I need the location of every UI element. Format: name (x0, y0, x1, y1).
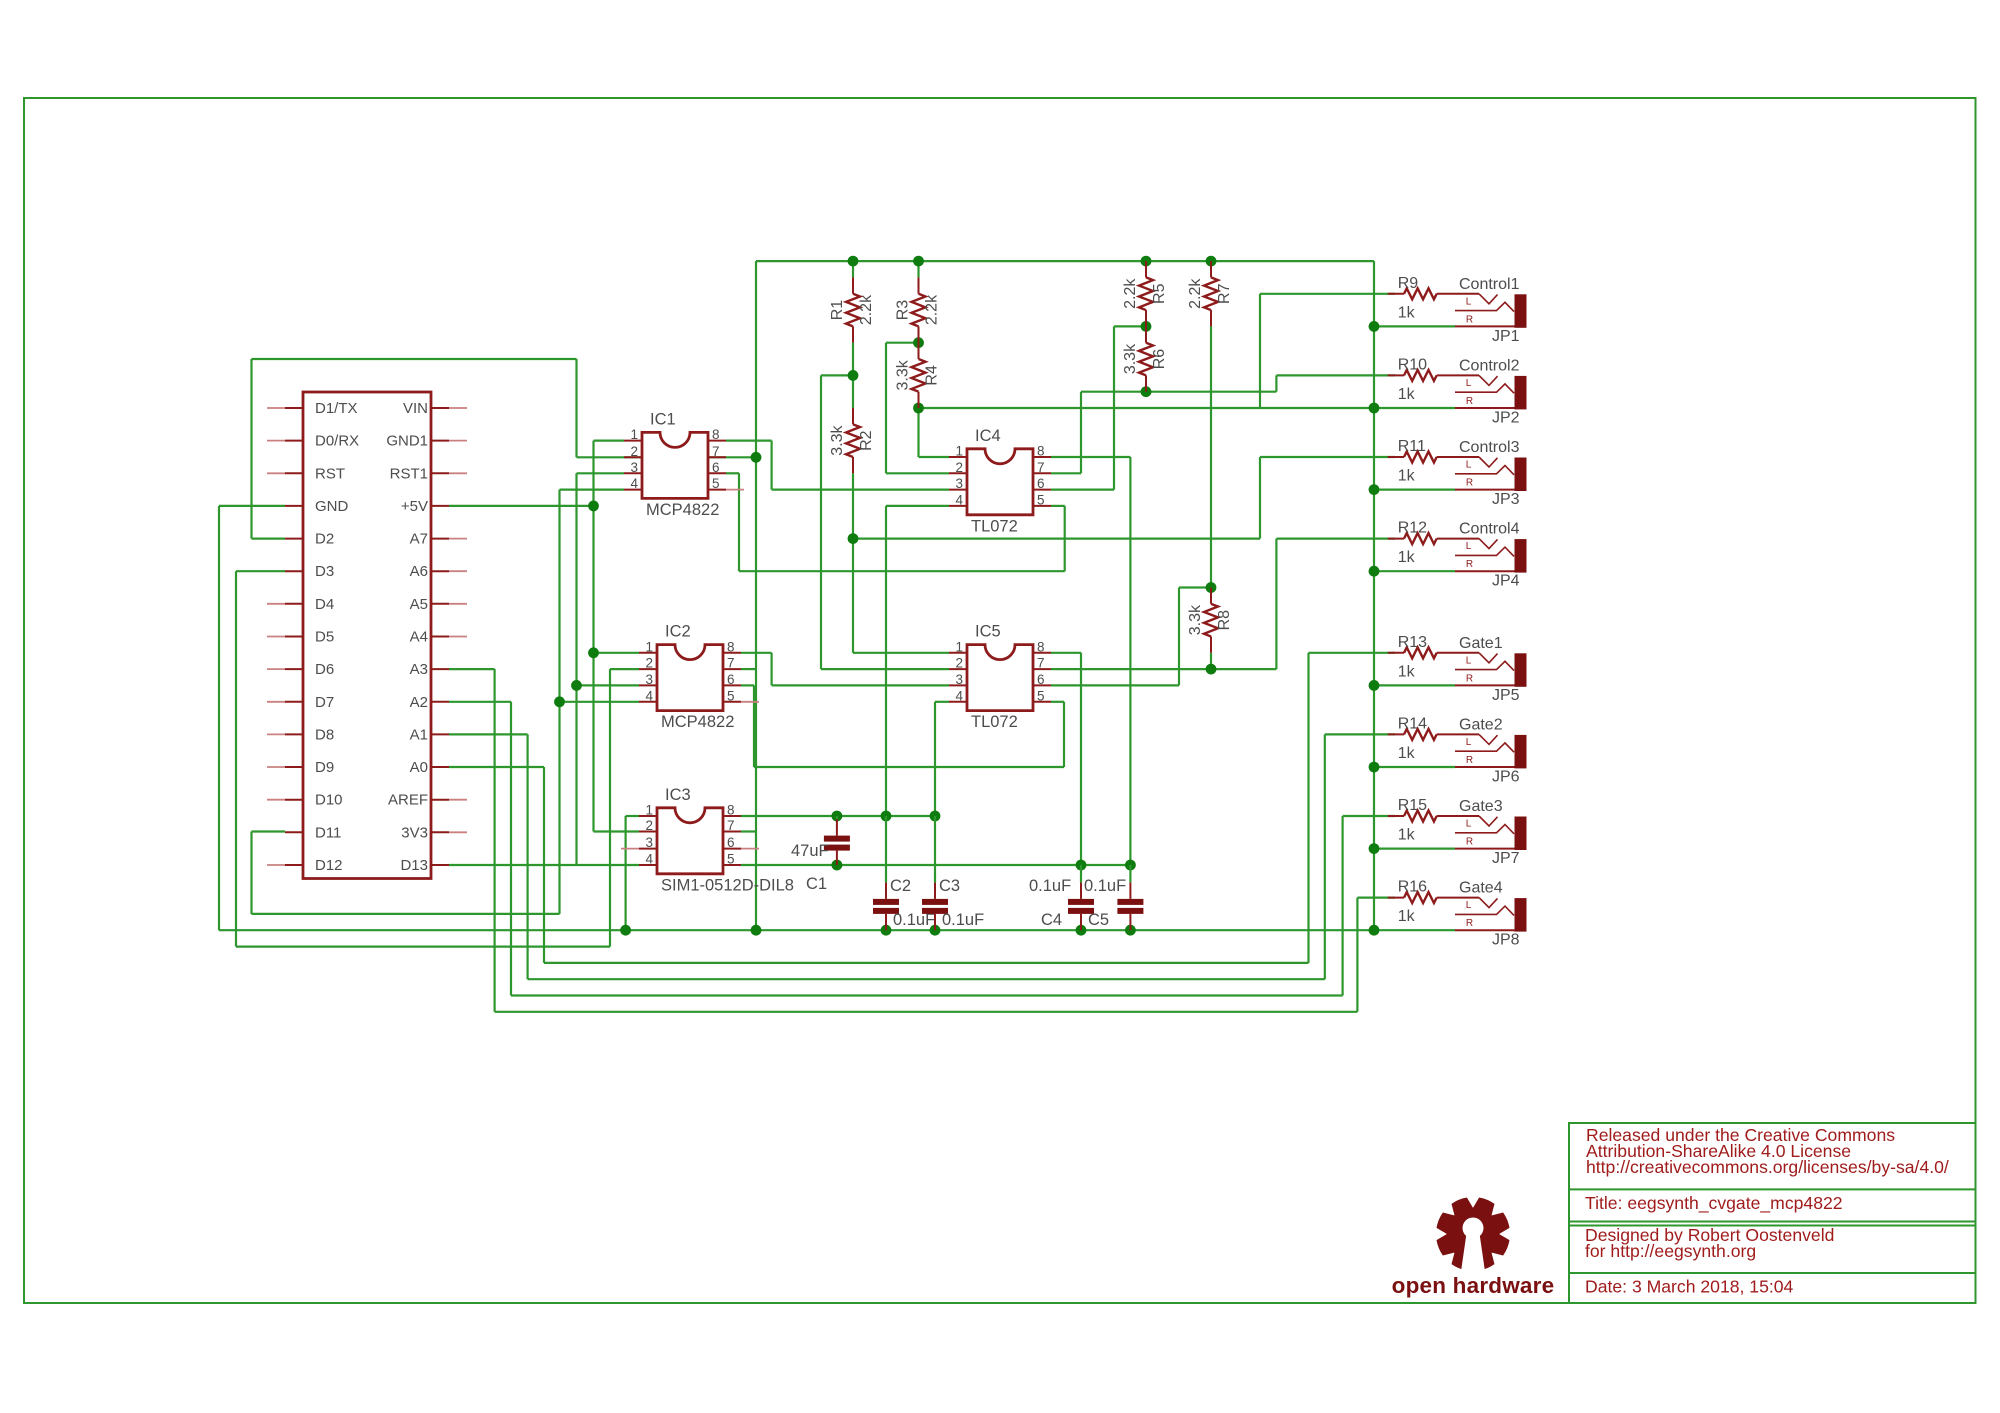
junction JP7 sleeve (1369, 843, 1380, 854)
IC U=IC1 MCP4822 DAC (624, 410, 744, 519)
junction JP1 sleeve (1369, 321, 1380, 332)
wire IC2 VOUTA to IC5 pin3 (772, 684, 949, 686)
svg-text:R8: R8 (1216, 610, 1233, 631)
wire CS2 up (609, 669, 611, 947)
svg-text:D6: D6 (315, 661, 334, 678)
svg-text:A2: A2 (410, 694, 428, 711)
svg-text:0.1uF: 0.1uF (1084, 877, 1126, 895)
junction R1 R2 (848, 370, 859, 381)
junction C3 GND (930, 925, 941, 936)
wire IC4 pin4 out (886, 505, 949, 507)
svg-text:C4: C4 (1041, 911, 1062, 929)
wire A3 up to R16 (1356, 898, 1358, 1012)
junction JP6 sleeve (1369, 762, 1380, 773)
svg-text:D12: D12 (315, 857, 343, 874)
wire D11 vertical (250, 832, 252, 914)
svg-text:JP2: JP2 (1492, 409, 1520, 426)
wire GND left vertical (218, 506, 220, 930)
wire GND jack column (1373, 261, 1375, 930)
svg-text:Control4: Control4 (1459, 521, 1520, 538)
wire R3R4 junction column (885, 343, 887, 474)
junction IC5 pin4 rail (930, 811, 941, 822)
wire A2 bottom run (511, 994, 1343, 996)
wire A3 vertical (494, 669, 496, 1012)
svg-text:D3: D3 (315, 563, 334, 580)
svg-text:A4: A4 (410, 629, 428, 646)
wire IC5 pin8 to positive rail (1080, 653, 1082, 865)
resistor R4 3.3k (895, 343, 941, 408)
svg-text:0.1uF: 0.1uF (942, 911, 984, 929)
wire JP2 sleeve to GND (1374, 407, 1455, 409)
resistor R13 1k (1388, 634, 1479, 681)
wire A1 bottom run (528, 978, 1325, 980)
svg-text:A6: A6 (410, 563, 428, 580)
wire R7 to R8 (1210, 326, 1212, 587)
svg-text:C2: C2 (890, 877, 911, 895)
svg-text:0.1uF: 0.1uF (1029, 877, 1071, 895)
wire R8 bottom (1210, 653, 1212, 669)
wire IC1 pin6 VOUTB (726, 472, 739, 474)
wire VOUTA to IC4 pin3 (772, 489, 949, 491)
svg-text:R12: R12 (1398, 520, 1427, 537)
capacitor C2 0.1uF (873, 816, 935, 930)
svg-text:5: 5 (727, 688, 735, 703)
svg-text:7: 7 (727, 656, 735, 671)
jack connector JP4 1k (1455, 521, 1527, 590)
wire GND top rail (756, 260, 1374, 262)
wire to IC4 pin7 (1051, 472, 1081, 474)
svg-text:C3: C3 (939, 877, 960, 895)
wire +5V to IC3 pin2 (594, 830, 640, 832)
svg-text:6: 6 (712, 460, 720, 475)
svg-text:2: 2 (630, 444, 638, 459)
wire +5V column (592, 441, 594, 832)
svg-text:MCP4822: MCP4822 (661, 713, 734, 731)
junction GND bus jack column (1369, 925, 1380, 936)
wire IC2 VOUTB run (754, 766, 1064, 768)
svg-text:A3: A3 (410, 661, 428, 678)
svg-text:R: R (1466, 314, 1473, 325)
svg-text:2: 2 (645, 818, 653, 833)
svg-text:3: 3 (645, 672, 653, 687)
svg-text:1: 1 (955, 639, 963, 654)
junction IC1 pin7 GND (751, 452, 762, 463)
IC U=IC2 MCP4822 DAC (639, 623, 759, 732)
wire IC1 pin8 VOUTA (726, 440, 772, 442)
wire D2 to loop (252, 537, 286, 539)
jack connector JP2 1k (1455, 357, 1527, 426)
svg-text:Gate3: Gate3 (1459, 798, 1503, 815)
wire GND from Arduino GND pin (219, 505, 285, 507)
svg-text:R5: R5 (1151, 283, 1168, 304)
junction IC3 pin1 GND bus (620, 925, 631, 936)
wire D3 bottom run (236, 945, 610, 947)
svg-text:IC5: IC5 (975, 623, 1001, 641)
wire down to IC4 pin1 (917, 408, 919, 457)
wire IC3 pin5 positive rail (741, 864, 1130, 866)
svg-text:4: 4 (630, 476, 638, 491)
svg-text:D9: D9 (315, 759, 334, 776)
svg-text:R9: R9 (1398, 275, 1419, 292)
wire A3 bottom run (495, 1011, 1358, 1013)
junction C5 rail (1125, 860, 1136, 871)
wire JP6 sleeve to GND (1374, 766, 1455, 768)
jack connector JP1 1k (1455, 276, 1527, 345)
jack connector JP5 1k (1455, 635, 1527, 704)
resistor R12 1k (1388, 520, 1479, 567)
svg-text:L: L (1466, 819, 1472, 830)
wire up to R10 (1275, 375, 1277, 391)
junction JP5 sleeve (1369, 680, 1380, 691)
svg-text:7: 7 (1037, 656, 1045, 671)
junction GND rail R5 (1141, 256, 1152, 267)
wire IC3 pin1 out (626, 815, 639, 817)
svg-text:Control3: Control3 (1459, 439, 1520, 456)
wire IC1 pin7 VSS to GND (624, 456, 756, 458)
svg-text:R11: R11 (1398, 438, 1426, 455)
wire VOUTA down (770, 441, 772, 490)
svg-text:GND1: GND1 (386, 433, 428, 450)
svg-text:8: 8 (712, 427, 720, 442)
wire IC2 pin7 VSS to GND (741, 668, 756, 670)
svg-text:D13: D13 (400, 857, 428, 874)
wire R1 to R2 junction (852, 343, 854, 376)
wire A0 bottom run (544, 962, 1309, 964)
svg-text:R: R (1466, 755, 1473, 766)
svg-text:JP6: JP6 (1492, 768, 1520, 785)
wire IC5 pin8 out (1051, 652, 1081, 654)
svg-text:1k: 1k (1398, 663, 1416, 680)
wire SCK to IC2 pin3 (577, 684, 640, 686)
svg-text:Gate4: Gate4 (1459, 880, 1503, 897)
wire D3 out (236, 570, 285, 572)
wire SCK column (575, 473, 577, 865)
junction SDI IC2 pin4 (554, 696, 565, 707)
wire +5V from Arduino (449, 505, 594, 507)
svg-text:2.2k: 2.2k (858, 294, 875, 325)
wire JP3 sleeve to GND (1374, 489, 1455, 491)
svg-text:1k: 1k (1398, 468, 1416, 485)
svg-text:R15: R15 (1398, 797, 1427, 814)
junction GND bus (751, 925, 762, 936)
junction R8 bottom (1206, 664, 1217, 675)
svg-text:D7: D7 (315, 694, 334, 711)
wire IC5 pin4 out (935, 701, 949, 703)
junction GND rail R1 (848, 256, 859, 267)
open hardware logo (1392, 1198, 1555, 1298)
wire CS1 to IC1 pin2 (577, 456, 625, 458)
resistor R11 1k (1388, 438, 1479, 485)
junction JP2 sleeve (1369, 403, 1380, 414)
wire R5R6 junction column (1113, 326, 1115, 489)
junction JP3 sleeve (1369, 484, 1380, 495)
svg-text:A7: A7 (410, 531, 428, 548)
wire D13 to IC3 pin4 (449, 864, 639, 866)
title block (1569, 1123, 1976, 1303)
svg-text:1: 1 (645, 639, 653, 654)
capacitor C3 0.1uF (922, 816, 984, 930)
svg-text:D2: D2 (315, 531, 334, 548)
svg-text:D11: D11 (315, 824, 341, 841)
junction C4 GND (1076, 925, 1087, 936)
wire to R12 (1276, 537, 1395, 539)
resistor R8 3.3k (1187, 588, 1233, 653)
svg-text:R13: R13 (1398, 634, 1427, 651)
svg-text:2: 2 (645, 656, 653, 671)
wire R2 bottom run to R11 (853, 537, 1260, 539)
svg-text:R10: R10 (1398, 356, 1427, 373)
svg-text:6: 6 (727, 835, 735, 850)
wire R2 bottom (852, 473, 854, 538)
wire IC2 VOUTB to IC5 pin5 (1051, 701, 1064, 703)
svg-text:+5V: +5V (401, 498, 428, 515)
svg-text:7: 7 (1037, 460, 1045, 475)
svg-text:5: 5 (727, 852, 735, 867)
svg-text:6: 6 (1037, 672, 1045, 687)
svg-text:6: 6 (1037, 476, 1045, 491)
svg-text:A5: A5 (410, 596, 428, 613)
svg-text:D4: D4 (315, 596, 334, 613)
wire JP8 sleeve to GND (1374, 929, 1455, 931)
junction IC4 pin4 rail (881, 811, 892, 822)
wire IC2 pin8 VOUTA (741, 652, 772, 654)
wire IC3 pin7 to GND (741, 830, 756, 832)
svg-text:D0/RX: D0/RX (315, 433, 359, 450)
svg-text:6: 6 (727, 672, 735, 687)
junction GND rail R3 (913, 256, 924, 267)
svg-text:R14: R14 (1398, 715, 1427, 732)
wire IC4 pin8 to positive rail (1129, 457, 1131, 865)
svg-text:R4: R4 (924, 365, 941, 386)
svg-text:2.2k: 2.2k (1187, 278, 1204, 309)
svg-text:Control1: Control1 (1459, 276, 1520, 293)
svg-text:8: 8 (1037, 444, 1045, 459)
svg-text:R: R (1466, 559, 1473, 570)
wire A1 vertical (526, 734, 528, 979)
svg-text:8: 8 (727, 639, 735, 654)
resistor R9 1k (1388, 275, 1479, 322)
svg-text:3.3k: 3.3k (1187, 604, 1204, 635)
svg-text:3: 3 (630, 460, 638, 475)
resistor R10 1k (1388, 356, 1479, 403)
svg-text:SIM1-0512D-DIL8: SIM1-0512D-DIL8 (661, 876, 794, 894)
svg-text:MCP4822: MCP4822 (646, 501, 719, 519)
svg-text:R: R (1466, 396, 1473, 407)
junction R2 bottom (848, 533, 859, 544)
capacitor C4 0.1uF (1029, 865, 1094, 930)
svg-text:VIN: VIN (403, 400, 428, 417)
svg-text:5: 5 (1037, 492, 1045, 507)
resistor R1 2.2k (829, 277, 875, 342)
svg-text:2.2k: 2.2k (924, 294, 941, 325)
resistor R7 2.2k (1187, 261, 1233, 326)
wire down to IC5 pin1 (852, 539, 854, 653)
wire down to IC4 pin7 (1080, 392, 1082, 474)
svg-text:L: L (1466, 296, 1472, 307)
svg-text:IC4: IC4 (975, 427, 1001, 445)
wire CS2 to IC2 pin2 (610, 668, 639, 670)
svg-text:L: L (1466, 460, 1472, 471)
svg-text:JP8: JP8 (1492, 932, 1520, 949)
svg-text:3: 3 (955, 476, 963, 491)
svg-text:1k: 1k (1398, 908, 1416, 925)
junction C2 GND (881, 925, 892, 936)
wire VOUTB up (1064, 506, 1066, 571)
svg-text:1k: 1k (1398, 827, 1416, 844)
svg-text:1: 1 (630, 427, 638, 442)
junction C1 negative rail (832, 811, 843, 822)
resistor R5 2.2k (1122, 261, 1168, 326)
junction GND rail R7 (1206, 256, 1217, 267)
svg-text:L: L (1466, 900, 1472, 911)
junction R6 bottom (1141, 386, 1152, 397)
capacitor C5 0.1uF (1084, 865, 1143, 930)
junction +5V IC2 pin1 (588, 647, 599, 658)
svg-text:R7: R7 (1216, 283, 1233, 304)
wire A1 up to R14 (1324, 734, 1326, 979)
junction R7 R8 (1206, 582, 1217, 593)
wire to R9 (1260, 293, 1395, 295)
resistor R14 1k (1388, 715, 1479, 762)
wire R7R8 junction column (1178, 588, 1180, 686)
wire A3 to R16 (1357, 896, 1395, 898)
svg-text:A0: A0 (410, 759, 428, 776)
svg-text:2.2k: 2.2k (1122, 278, 1139, 309)
capacitor C1 47uF (791, 816, 850, 893)
svg-text:Control2: Control2 (1459, 357, 1520, 374)
svg-text:C1: C1 (806, 875, 827, 893)
wire up to R12 (1275, 539, 1277, 670)
svg-text:open hardware: open hardware (1392, 1273, 1555, 1298)
wire A2 to R15 (1343, 815, 1395, 817)
junction JP4 sleeve (1369, 566, 1380, 577)
op-amp U=IC4 TL072 (949, 427, 1051, 536)
junction C4 rail (1076, 860, 1087, 871)
wire to IC5 pin6 (1051, 684, 1179, 686)
svg-text:5: 5 (1037, 688, 1045, 703)
svg-text:5: 5 (712, 476, 720, 491)
wire VOUTB run (739, 570, 1065, 572)
svg-text:R: R (1466, 918, 1473, 929)
wire A0 vertical (543, 767, 545, 963)
svg-text:TL072: TL072 (971, 517, 1018, 535)
svg-text:for http://eegsynth.org: for http://eegsynth.org (1585, 1241, 1756, 1261)
wire A2 up to R15 (1341, 816, 1343, 996)
wire A1 to R14 (1325, 733, 1395, 735)
wire R1 top (852, 261, 854, 277)
svg-text:L: L (1466, 378, 1472, 389)
svg-text:3: 3 (955, 672, 963, 687)
svg-text:R: R (1466, 837, 1473, 848)
svg-text:3.3k: 3.3k (829, 425, 846, 456)
svg-text:8: 8 (1037, 639, 1045, 654)
wire IC5 pin4 to negative rail (934, 702, 936, 816)
wire JP4 sleeve to GND (1374, 570, 1455, 572)
svg-text:D10: D10 (315, 792, 343, 809)
wire IC4 pin4 to negative rail (885, 506, 887, 816)
wire R1R2 junction to R2 (852, 375, 854, 408)
svg-text:1k: 1k (1398, 386, 1416, 403)
wire SDI column (558, 490, 560, 914)
svg-text:A1: A1 (410, 726, 428, 743)
svg-text:D8: D8 (315, 726, 334, 743)
svg-text:4: 4 (645, 852, 653, 867)
resistor R15 1k (1388, 797, 1479, 844)
svg-text:1k: 1k (1398, 304, 1416, 321)
wire to IC5 pin2 (821, 668, 949, 670)
svg-text:R1: R1 (829, 300, 846, 321)
resistor R2 3.3k (829, 408, 875, 473)
wire up to R11 (1259, 457, 1261, 539)
wire A2 vertical (510, 702, 512, 996)
wire to IC4 pin2 (886, 472, 949, 474)
svg-text:IC1: IC1 (650, 410, 676, 428)
wire A0 out (449, 766, 544, 768)
junction R4 bottom (913, 403, 924, 414)
svg-text:Date: 3 March 2018, 15:04: Date: 3 March 2018, 15:04 (1585, 1277, 1794, 1297)
wire R4 bottom run (919, 407, 1375, 409)
wire D3 vertical (235, 571, 237, 946)
wire JP1 sleeve to GND (1374, 325, 1455, 327)
svg-text:Title: eegsynth_cvgate_mcp4822: Title: eegsynth_cvgate_mcp4822 (1585, 1193, 1843, 1214)
svg-text:3: 3 (645, 835, 653, 850)
wire R1R2 junction column (820, 375, 822, 669)
svg-text:R16: R16 (1398, 879, 1427, 896)
wire IC2 VOUTB up (1063, 702, 1065, 767)
jack connector JP8 1k (1455, 880, 1527, 949)
wire A3 out (449, 668, 495, 670)
wire GND bottom bus (219, 929, 1374, 931)
svg-text:R6: R6 (1151, 349, 1168, 370)
op-amp U=IC5 TL072 (949, 623, 1051, 732)
wire +5V to IC2 pin1 (594, 652, 640, 654)
svg-text:RST: RST (315, 465, 345, 482)
junction +5V (588, 501, 599, 512)
wire CS1 down (575, 359, 577, 457)
svg-text:D5: D5 (315, 629, 334, 646)
wire to IC5 pin1 (853, 652, 949, 654)
wire D11 out (252, 830, 286, 832)
wire IC2 VOUTA down (770, 653, 772, 686)
wire IC2 VOUTB down (753, 685, 755, 767)
wire R5R6 junction jog (1114, 325, 1146, 327)
svg-text:R: R (1466, 478, 1473, 489)
wire R7R8 junction jog (1179, 586, 1211, 588)
svg-text:2: 2 (955, 460, 963, 475)
wire IC2 pin6 VOUTB (741, 684, 754, 686)
svg-text:C5: C5 (1088, 911, 1109, 929)
junction C5 GND (1125, 925, 1136, 936)
resistor R3 2.2k (895, 277, 941, 342)
svg-text:2: 2 (955, 656, 963, 671)
junction C1 positive rail (832, 860, 843, 871)
wire R3 top (917, 261, 919, 277)
wire R1R2 junction jog (821, 374, 853, 376)
wire SDI to IC2 pin4 (560, 701, 640, 703)
svg-text:L: L (1466, 737, 1472, 748)
svg-text:RST1: RST1 (390, 465, 428, 482)
wire IC3 pin1 to GND bus (624, 816, 626, 930)
svg-text:JP1: JP1 (1492, 328, 1520, 345)
wire A0 to R13 (1309, 652, 1396, 654)
svg-text:1: 1 (955, 444, 963, 459)
wire up to R9 (1259, 294, 1261, 408)
wire JP7 sleeve to GND (1374, 847, 1455, 849)
svg-text:3.3k: 3.3k (895, 359, 912, 390)
jack connector JP3 1k (1455, 439, 1527, 508)
svg-text:L: L (1466, 541, 1472, 552)
svg-text:Gate2: Gate2 (1459, 716, 1503, 733)
